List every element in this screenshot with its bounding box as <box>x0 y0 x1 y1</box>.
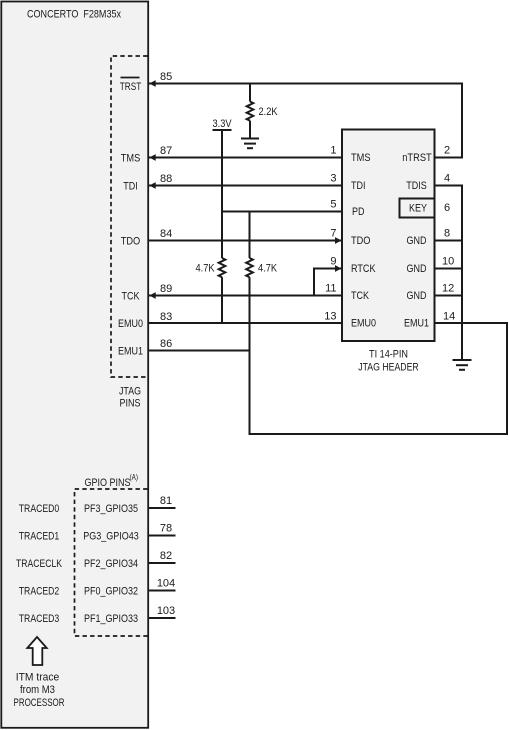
wire stub GPIO pin 78 <box>148 535 176 537</box>
resistor R2 4.7K: 3.3V rail to EMU0 <box>196 130 226 323</box>
svg-text:PF1_GPIO33: PF1_GPIO33 <box>84 613 138 625</box>
wire RTCK stub: TCK net to header pin 9 <box>314 269 342 296</box>
svg-text:RTCK: RTCK <box>351 263 376 275</box>
svg-text:2: 2 <box>444 145 450 157</box>
wire PD net: 3.3V rail to header pin 5 <box>222 211 342 213</box>
svg-text:85: 85 <box>160 71 172 83</box>
svg-text:GND: GND <box>407 235 427 247</box>
svg-text:82: 82 <box>160 550 172 562</box>
svg-text:(A): (A) <box>130 473 139 482</box>
svg-text:2.2K: 2.2K <box>259 106 279 118</box>
svg-text:JTAG: JTAG <box>119 386 141 398</box>
svg-text:83: 83 <box>160 311 172 323</box>
ground G1 below R1 <box>241 139 259 149</box>
header KEY pin box (pin 6) <box>400 199 435 218</box>
svg-text:TRST: TRST <box>120 81 142 93</box>
arrowhead into chip TDI <box>149 182 155 189</box>
ITM trace caption <box>14 672 65 710</box>
svg-text:KEY: KEY <box>409 203 428 215</box>
svg-text:3: 3 <box>330 173 336 185</box>
wire TMS net: pin 87 to header pin 1 <box>148 157 343 159</box>
svg-text:88: 88 <box>160 173 172 185</box>
wire EMU1 net: header pin 14 loop back <box>250 323 508 434</box>
svg-text:5: 5 <box>330 199 336 211</box>
svg-text:4: 4 <box>444 173 450 185</box>
svg-text:CONCERTO F28M35x: CONCERTO F28M35x <box>27 9 121 21</box>
wire stub GPIO pin 103 <box>148 617 176 619</box>
svg-text:10: 10 <box>442 256 454 268</box>
svg-text:86: 86 <box>160 338 172 350</box>
svg-text:EMU0: EMU0 <box>351 318 376 330</box>
svg-text:GPIO PINS: GPIO PINS <box>85 477 131 489</box>
svg-text:12: 12 <box>442 283 454 295</box>
wire stub GPIO pin 81 <box>148 507 176 509</box>
svg-text:78: 78 <box>160 523 172 535</box>
svg-text:13: 13 <box>324 311 336 323</box>
connector J1: TI 14-pin JTAG header body <box>342 130 435 342</box>
svg-text:TRACED0: TRACED0 <box>19 503 60 515</box>
svg-text:81: 81 <box>160 495 172 507</box>
svg-text:89: 89 <box>160 283 172 295</box>
svg-text:TMS: TMS <box>351 152 371 164</box>
power 3.3V supply symbol <box>213 118 233 130</box>
resistor R1 2.2K: TRST net to ground <box>247 84 278 139</box>
wire TDI net: pin 88 to header pin 3 <box>148 185 343 187</box>
arrowhead into chip TCK <box>149 292 155 299</box>
pin label TRST (active low, overline) <box>120 78 142 94</box>
arrowhead into chip TMS <box>149 154 155 161</box>
svg-text:PF0_GPIO32: PF0_GPIO32 <box>84 586 138 598</box>
arrowhead into header TDO <box>335 237 341 244</box>
svg-text:TDI: TDI <box>351 180 366 192</box>
svg-text:TDO: TDO <box>121 236 141 248</box>
svg-text:9: 9 <box>330 256 336 268</box>
svg-text:TDI: TDI <box>123 181 138 193</box>
ITM trace block arrow <box>27 637 46 665</box>
svg-text:6: 6 <box>444 202 450 214</box>
svg-text:TCK: TCK <box>351 290 370 302</box>
arrowhead into chip TRST <box>149 80 155 87</box>
svg-text:1: 1 <box>330 145 336 157</box>
svg-text:GND: GND <box>407 263 427 275</box>
svg-text:PF3_GPIO35: PF3_GPIO35 <box>84 503 138 515</box>
svg-text:PROCESSOR: PROCESSOR <box>14 697 65 709</box>
svg-text:TRACED3: TRACED3 <box>19 613 60 625</box>
ground G2 below header <box>453 360 472 370</box>
wire TRST net: pin 85 to header pin 2 <box>148 84 463 158</box>
svg-text:TRACECLK: TRACECLK <box>16 558 63 570</box>
wire EMU0 net: pin 83 to header pin 13 <box>148 322 343 324</box>
svg-text:TMS: TMS <box>121 153 141 165</box>
svg-text:TDIS: TDIS <box>406 180 427 192</box>
svg-text:ITM trace: ITM trace <box>16 672 60 684</box>
arrowhead into header RTCK <box>335 265 341 272</box>
svg-text:PG3_GPIO43: PG3_GPIO43 <box>83 531 139 543</box>
GPIO PINS dashed group box with note (A) <box>75 473 148 636</box>
svg-text:4.7K: 4.7K <box>258 263 278 275</box>
JTAG PINS dashed group box <box>111 56 148 410</box>
svg-text:TRACED1: TRACED1 <box>19 531 60 543</box>
wire EMU1 net: pin 86 horizontal segment <box>148 350 250 352</box>
wire stub GPIO pin 82 <box>148 562 176 564</box>
header caption <box>358 349 419 374</box>
wire stub GPIO pin 104 <box>148 590 176 592</box>
svg-text:from M3: from M3 <box>20 684 55 696</box>
svg-text:84: 84 <box>160 228 172 240</box>
svg-text:8: 8 <box>444 228 450 240</box>
resistor R3 4.7K: PD/3.3V to EMU1 <box>246 212 277 351</box>
svg-text:GND: GND <box>407 290 427 302</box>
svg-text:7: 7 <box>330 228 336 240</box>
svg-text:4.7K: 4.7K <box>196 263 216 275</box>
svg-text:PD: PD <box>352 206 365 218</box>
svg-text:EMU1: EMU1 <box>118 346 143 358</box>
svg-text:14: 14 <box>443 311 455 323</box>
svg-text:87: 87 <box>160 145 172 157</box>
wire TCK net: pin 89 to header pin 11 <box>148 295 343 297</box>
wire TDO net: pin 84 to header pin 7 <box>148 240 343 242</box>
svg-text:TI 14-PIN: TI 14-PIN <box>369 349 408 361</box>
svg-text:11: 11 <box>325 283 336 295</box>
svg-text:EMU0: EMU0 <box>118 318 143 330</box>
wire GND bus: header pins 4,8,10,12 to ground <box>435 186 463 361</box>
svg-text:103: 103 <box>157 605 175 617</box>
svg-text:PINS: PINS <box>120 398 141 410</box>
svg-text:PF2_GPIO34: PF2_GPIO34 <box>84 558 138 570</box>
svg-text:TCK: TCK <box>122 291 141 303</box>
svg-text:JTAG HEADER: JTAG HEADER <box>358 362 419 374</box>
svg-text:EMU1: EMU1 <box>404 318 429 330</box>
svg-text:TDO: TDO <box>351 235 371 247</box>
svg-text:3.3V: 3.3V <box>213 118 233 130</box>
svg-text:nTRST: nTRST <box>402 152 432 164</box>
svg-text:104: 104 <box>157 578 175 590</box>
IC U1: CONCERTO F28M35x processor body <box>1 2 148 728</box>
svg-text:TRACED2: TRACED2 <box>19 586 60 598</box>
